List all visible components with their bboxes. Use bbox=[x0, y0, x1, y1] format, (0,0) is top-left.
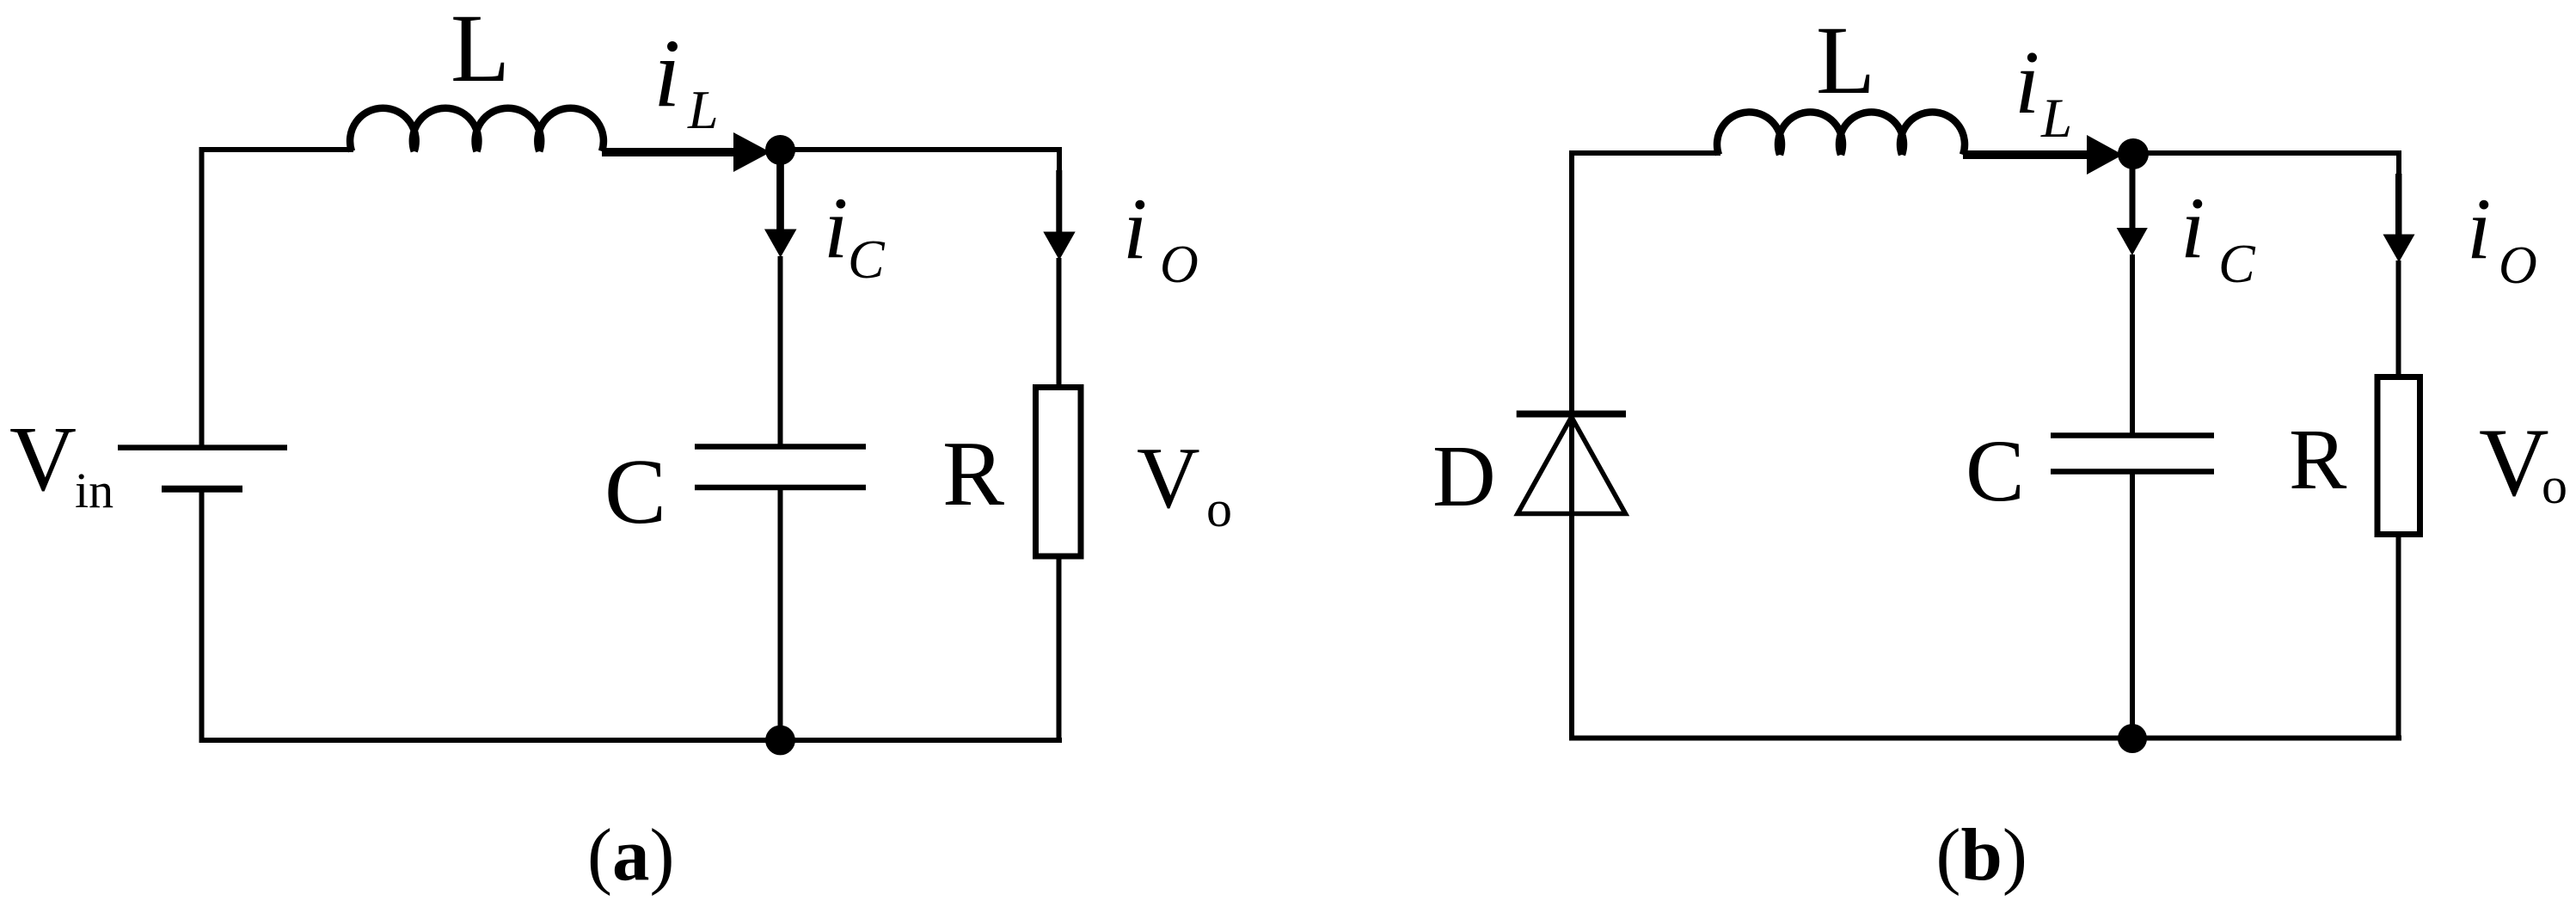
svg-text:i: i bbox=[2467, 181, 2491, 278]
svg-text:O: O bbox=[2499, 236, 2537, 295]
svg-text:(b): (b) bbox=[1936, 813, 2027, 897]
svg-text:L: L bbox=[687, 79, 719, 140]
svg-text:C: C bbox=[848, 229, 886, 290]
svg-text:O: O bbox=[1160, 236, 1199, 294]
svg-text:C: C bbox=[1966, 422, 2025, 520]
svg-text:V: V bbox=[9, 408, 77, 511]
svg-text:i: i bbox=[2015, 32, 2039, 132]
svg-text:(a): (a) bbox=[587, 813, 674, 897]
svg-text:o: o bbox=[2542, 457, 2567, 514]
svg-text:o: o bbox=[1206, 481, 1232, 537]
svg-text:L: L bbox=[1816, 7, 1875, 114]
svg-text:C: C bbox=[604, 441, 666, 543]
svg-text:V: V bbox=[2479, 409, 2549, 517]
svg-text:D: D bbox=[1432, 428, 1496, 525]
svg-text:i: i bbox=[2180, 180, 2205, 277]
svg-text:C: C bbox=[2218, 233, 2256, 294]
svg-text:i: i bbox=[653, 20, 680, 127]
svg-text:i: i bbox=[824, 180, 848, 277]
svg-text:V: V bbox=[1137, 430, 1200, 527]
svg-text:in: in bbox=[75, 463, 113, 518]
svg-text:L: L bbox=[451, 0, 510, 102]
svg-text:R: R bbox=[2289, 411, 2347, 507]
svg-text:i: i bbox=[1123, 181, 1147, 278]
svg-text:R: R bbox=[942, 423, 1004, 525]
svg-text:L: L bbox=[2040, 88, 2072, 150]
